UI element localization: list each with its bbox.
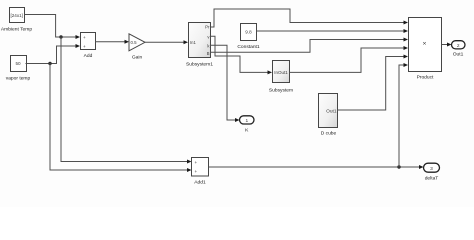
svg-text:Gain: Gain bbox=[132, 55, 143, 61]
source block Ambient Temp [24x1] bbox=[1, 8, 32, 33]
arrowhead into Add in1 bbox=[76, 35, 81, 39]
svg-text:3: 3 bbox=[430, 166, 433, 172]
svg-text:Product: Product bbox=[417, 75, 434, 81]
wire Gain -> Subsystem1 In1 bbox=[145, 41, 185, 43]
arrowhead into deltaT bbox=[419, 165, 424, 169]
junction dot on Add1 wire bbox=[397, 165, 400, 168]
junction dot vapor branch bbox=[48, 62, 51, 65]
subsystem block D cube bbox=[319, 94, 338, 137]
wire Subsystem1 Pr -> Product in1 (top route) bbox=[211, 9, 405, 27]
arrowhead into Subsystem1 In1 bbox=[184, 40, 189, 44]
svg-text:Constant1: Constant1 bbox=[237, 44, 260, 50]
wire vapor branch down to Add1 in2 bbox=[50, 64, 188, 171]
svg-text:+: + bbox=[195, 169, 198, 174]
sum block Add bbox=[81, 33, 96, 60]
svg-text:+: + bbox=[195, 160, 198, 165]
gain block Gain 0.5 bbox=[129, 34, 145, 61]
svg-text:Out1: Out1 bbox=[453, 51, 464, 57]
wire Constant1 -> Product in2 bbox=[257, 30, 405, 32]
svg-text:9.8: 9.8 bbox=[245, 30, 252, 35]
svg-text:0.5: 0.5 bbox=[131, 40, 138, 45]
svg-text:Subsystem: Subsystem bbox=[269, 88, 293, 94]
svg-text:Ambient Temp: Ambient Temp bbox=[1, 26, 32, 32]
svg-text:Out1: Out1 bbox=[326, 108, 337, 114]
svg-text:Pr: Pr bbox=[205, 25, 210, 30]
arrowhead into Add1 in2 bbox=[187, 168, 192, 172]
arrowhead into Subsystem input bbox=[268, 70, 273, 74]
svg-text:×: × bbox=[423, 40, 427, 47]
wire Subsystem -> Product in4 bbox=[290, 48, 405, 72]
svg-text:D cube: D cube bbox=[321, 131, 337, 137]
svg-text:50: 50 bbox=[15, 61, 21, 66]
svg-text:Add: Add bbox=[84, 53, 93, 59]
svg-text:+: + bbox=[83, 35, 86, 40]
arrowhead into Product in1 bbox=[404, 21, 409, 25]
svg-text:Add1: Add1 bbox=[194, 180, 206, 186]
svg-text:+: + bbox=[83, 44, 86, 49]
subsystem block Subsystem1 bbox=[186, 23, 213, 68]
svg-text:B: B bbox=[207, 51, 210, 56]
constant block Constant1 9.8 bbox=[237, 24, 260, 51]
wire Add1 -> outport deltaT bbox=[209, 166, 421, 168]
wire Subsystem1 out3 -> outport K bbox=[211, 45, 236, 120]
svg-text:Subsystem1: Subsystem1 bbox=[186, 62, 213, 68]
wire Add -> Gain bbox=[96, 41, 126, 43]
wire vapor temp -> Add in2 bbox=[26, 46, 77, 64]
svg-text:vapor temp: vapor temp bbox=[6, 76, 31, 82]
arrowhead into Add in2 bbox=[76, 44, 81, 48]
arrowhead into Product in3 bbox=[404, 38, 409, 42]
wire Subsystem1 out4 -> Product in3 bbox=[211, 40, 405, 53]
wire ambient branch down to Add1 in1 bbox=[61, 37, 188, 162]
arrowhead into Gain bbox=[125, 40, 130, 44]
arrowhead into Out1 bbox=[447, 43, 452, 47]
svg-text:K: K bbox=[245, 128, 249, 134]
sum block Add1 bbox=[192, 158, 209, 186]
arrowhead into Product in4 bbox=[404, 46, 409, 50]
source block vapor temp 50 bbox=[6, 56, 31, 82]
arrowhead into Product in5 bbox=[404, 55, 409, 59]
svg-text:deltaT: deltaT bbox=[425, 176, 439, 182]
svg-text:1: 1 bbox=[245, 118, 248, 124]
arrowhead into Add1 in1 bbox=[187, 160, 192, 164]
arrowhead into Product in2 bbox=[404, 29, 409, 33]
wire branch up to Product in6 bbox=[399, 65, 405, 167]
svg-text:[24x1]: [24x1] bbox=[10, 13, 23, 18]
product block Product bbox=[409, 18, 442, 81]
svg-text:In1: In1 bbox=[190, 40, 196, 45]
arrowhead into Product in6 bbox=[404, 63, 409, 67]
arrowhead into K bbox=[235, 118, 240, 122]
junction dot ambient branch bbox=[59, 35, 62, 38]
wire Ambient Temp -> Add in1 bbox=[25, 15, 77, 38]
outport K (1) bbox=[240, 116, 255, 134]
outport Out1 (2) bbox=[452, 41, 466, 58]
wire Subsystem1 out2 -> Subsystem In1 bbox=[211, 36, 269, 72]
wire D cube -> Product in5 bbox=[338, 57, 405, 111]
svg-text:InOut1: InOut1 bbox=[274, 70, 288, 75]
outport deltaT (3) bbox=[424, 163, 440, 181]
svg-text:2: 2 bbox=[457, 43, 460, 49]
subsystem block Subsystem (InOut1) bbox=[269, 61, 293, 94]
wire Product -> Out1 bbox=[442, 44, 448, 46]
